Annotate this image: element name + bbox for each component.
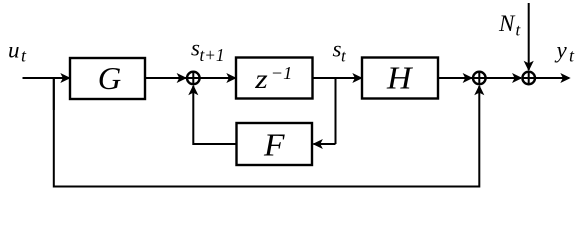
- svg-text:F: F: [263, 127, 285, 163]
- svg-text:t: t: [516, 21, 522, 40]
- svg-text:y: y: [555, 38, 568, 63]
- svg-text:H: H: [386, 60, 414, 96]
- svg-text:−1: −1: [271, 63, 293, 83]
- node branch of input (feedthrough tap): [53, 78, 55, 110]
- wire feedthrough bottom path from input branch to S2 bottom: [54, 78, 480, 187]
- wire N_t noise input into S3 from top: [528, 3, 530, 70]
- node branch after z^-1 (state tap to F): [335, 78, 337, 144]
- svg-text:t+1: t+1: [200, 45, 225, 65]
- wire S3 to output y_t: [535, 77, 569, 79]
- wire S1 to block z^-1: [200, 77, 235, 79]
- wire G to summing junction S1: [145, 77, 186, 79]
- svg-text:t: t: [569, 46, 575, 66]
- wire H to summing junction S2: [438, 77, 472, 79]
- svg-text:z: z: [254, 64, 268, 94]
- svg-text:u: u: [8, 38, 20, 63]
- svg-text:t: t: [341, 47, 347, 66]
- summing junction S2: [473, 72, 486, 85]
- svg-text:G: G: [98, 60, 122, 96]
- wire F output left and up into S1 bottom: [193, 86, 236, 144]
- block z^-1 (unit delay): [236, 58, 313, 99]
- summing junction S1: [187, 72, 200, 85]
- wire z^-1 to block H: [313, 77, 362, 79]
- block G: [70, 58, 145, 99]
- summing junction S3: [522, 72, 535, 85]
- wire S2 to summing junction S3: [486, 77, 521, 79]
- block F: [237, 123, 313, 165]
- wire state tap down into F right side: [314, 143, 336, 145]
- svg-text:t: t: [21, 46, 27, 66]
- wire input u_t to block G: [23, 77, 70, 79]
- svg-text:N: N: [498, 11, 516, 36]
- block H: [362, 58, 438, 99]
